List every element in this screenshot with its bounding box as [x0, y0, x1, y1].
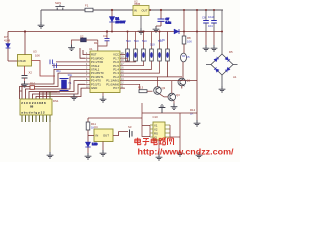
wire base [147, 90, 153, 92]
ground column x197 [194, 120, 201, 126]
svg-text:SW1: SW1 [55, 1, 62, 5]
svg-text:Q3: Q3 [176, 93, 180, 97]
node junction at C7 [160, 9, 162, 11]
wire rail to opto [88, 117, 142, 119]
capacitor C7 [156, 10, 171, 26]
svg-text:U4: U4 [94, 125, 98, 129]
ground U5 [156, 154, 163, 160]
wire display gnd [49, 122, 51, 152]
wire left drop of top rail [40, 10, 42, 22]
wire Q2 emitter to Q3 base [160, 94, 168, 97]
wire stub below rail x215 [213, 32, 215, 46]
svg-text:S2: S2 [80, 34, 84, 38]
svg-text:1N4007: 1N4007 [116, 20, 126, 24]
svg-text:C10: C10 [153, 115, 159, 119]
svg-text:0.1u: 0.1u [166, 20, 172, 24]
diode D1 [109, 17, 126, 24]
svg-text:A1: A1 [233, 75, 237, 79]
路 [159, 138, 166, 145]
svg-text:R1: R1 [94, 41, 98, 45]
wire stub below rail x206 [205, 32, 207, 46]
wire [183, 10, 185, 36]
wire top rail VCC-in [41, 9, 223, 11]
wire fan resistors to U1 right pins [125, 58, 160, 73]
svg-text:C8: C8 [202, 16, 206, 20]
svg-text:30p: 30p [68, 73, 73, 77]
svg-text:4148: 4148 [4, 39, 11, 43]
wire Q3 collector up [171, 81, 173, 94]
svg-text:IN: IN [134, 9, 137, 13]
svg-text:OUT: OUT [103, 134, 109, 138]
svg-text:510: 510 [142, 39, 147, 43]
resistor R10 above display [30, 82, 36, 90]
resistor R13 base [138, 86, 147, 93]
ground C7 [153, 26, 160, 32]
wire [181, 86, 183, 89]
ground display [47, 152, 54, 158]
svg-text:10K: 10K [187, 40, 192, 44]
left column diode D7 [4, 32, 11, 62]
op U4 opto [88, 125, 113, 150]
svg-text:88: 88 [30, 105, 34, 109]
wire fan U1 left pins to display [20, 48, 86, 99]
wire [167, 61, 169, 77]
ground bridge negative [219, 86, 226, 92]
wire regulator GND pin [140, 16, 142, 29]
svg-text:DS1: DS1 [53, 99, 59, 103]
ground far [196, 152, 203, 158]
wire [183, 44, 185, 53]
op U5 DS1302 [150, 115, 170, 140]
resistor R11 [86, 122, 96, 130]
diode D6 on mid rail [174, 29, 179, 34]
电 [135, 138, 141, 146]
display DS1 LED module [20, 92, 59, 122]
svg-text:C4: C4 [103, 34, 107, 38]
node junction at x150 [149, 9, 151, 11]
ground X2 [21, 81, 28, 87]
crystal Y1 cluster [50, 60, 85, 91]
svg-text:LED: LED [92, 142, 97, 146]
svg-text:7805: 7805 [134, 2, 141, 6]
svg-text:D5: D5 [229, 50, 233, 54]
ground regulator [138, 28, 145, 34]
svg-text:a b c d e f g p 1 2: a b c d e f g p 1 2 [21, 111, 45, 115]
wire Q2 collector up [157, 77, 159, 87]
ground right red [177, 150, 184, 156]
wire mid rail [8, 31, 222, 33]
op U3 small IC [8, 30, 40, 66]
column x=215 cap C9 [208, 10, 217, 32]
crystal X2 below U3 [22, 61, 56, 82]
svg-text:U1: U1 [89, 47, 93, 51]
网 [168, 138, 174, 145]
label texts [190, 108, 196, 116]
fuse F1 [85, 4, 93, 12]
op U1 MCU AT89C2051 [85, 47, 125, 93]
power port above DS1302 (up wedge) [159, 105, 166, 113]
svg-text:Q2: Q2 [162, 86, 166, 90]
svg-text:510: 510 [134, 39, 139, 43]
capacitor C5 polarized [181, 53, 191, 62]
svg-text:OUT: OUT [142, 9, 148, 13]
svg-text:510: 510 [126, 39, 131, 43]
watermark line 1 (CJK drawn as strokes) [135, 138, 174, 146]
svg-text:C5: C5 [186, 55, 190, 59]
ground below left drop [38, 22, 45, 28]
ground x215 [211, 45, 218, 51]
node junction at D1 [111, 9, 113, 11]
svg-text:F1: F1 [85, 4, 89, 8]
wire from mid rail through C4 down-left to U1 RST [98, 32, 107, 47]
wire [86, 40, 98, 51]
svg-text:IN: IN [96, 134, 99, 138]
svg-text:P3.7: P3.7 [113, 86, 119, 90]
svg-text:10K: 10K [35, 54, 40, 58]
ground U1 gnd pin [71, 94, 78, 100]
wire [167, 32, 169, 50]
wire loop feed [142, 103, 150, 137]
ground LED branch [85, 153, 92, 159]
LED D8 [85, 142, 97, 147]
resistor R8 [182, 36, 192, 44]
wire bridge feed x=222 [221, 10, 223, 54]
column x=206 cap C8 [202, 10, 213, 32]
transistor Q2 [154, 86, 166, 94]
wire [72, 40, 81, 45]
capacitor C4 [103, 34, 110, 41]
svg-text:X2: X2 [29, 71, 33, 75]
wire [196, 10, 198, 120]
wire branch down [87, 118, 89, 153]
bridge rectifier D2-D5 [206, 50, 238, 86]
svg-text:510: 510 [158, 39, 163, 43]
ground x206 [203, 45, 210, 51]
wire Q3 emitter down [173, 101, 175, 104]
svg-text:510: 510 [150, 43, 155, 47]
电 [151, 138, 157, 146]
connector S3 [113, 125, 132, 138]
transistor Q3 [168, 93, 180, 101]
switch S2 box [80, 34, 86, 42]
svg-text:GND: GND [91, 86, 97, 90]
RST cluster: ground [68, 45, 75, 51]
wire [182, 62, 184, 79]
svg-text:1K: 1K [190, 112, 194, 116]
svg-text:R13: R13 [138, 86, 144, 90]
svg-text:S3: S3 [128, 125, 132, 129]
svg-text:10uF: 10uF [208, 15, 215, 19]
ground U4 [100, 150, 107, 156]
svg-text:2 1 C C 2 3 4 8 8 8: 2 1 C C 2 3 4 8 8 8 [21, 101, 46, 105]
子 [143, 139, 150, 145]
regulator U2 7805 [133, 0, 149, 15]
svg-text:DS18: DS18 [19, 59, 26, 63]
wire right bus up [142, 113, 197, 150]
svg-text:104: 104 [208, 24, 213, 28]
ground Q3 [171, 104, 178, 110]
wire P1 pin row to transistor rails [125, 77, 197, 90]
ground stub center [100, 96, 107, 102]
switch S1 pushbutton [55, 1, 65, 10]
transistor Q1 [178, 78, 191, 86]
node dots on rails [111, 9, 223, 33]
svg-text:R10: R10 [30, 82, 36, 86]
svg-text:http://www.cndzz.com/: http://www.cndzz.com/ [138, 147, 235, 157]
resistor array R2-R7 with wires to mid rail [94, 32, 169, 62]
wire D1 branch [111, 10, 113, 32]
